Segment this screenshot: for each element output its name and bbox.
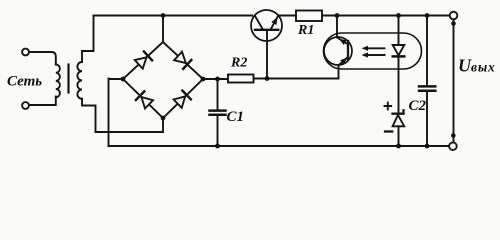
bridge rectifier diamond (123, 42, 203, 118)
wire mains bottom to primary (29, 97, 56, 106)
node C1 tap (215, 77, 220, 82)
svg-text:R2: R2 (230, 56, 247, 71)
capacitor C2 lead bottom (426, 92, 428, 146)
node output top stub (451, 21, 456, 26)
wire bridge top corner lead (162, 16, 164, 43)
wire zener anode to bottom rail (398, 126, 400, 146)
diode VD4 lower-right (174, 96, 186, 107)
transformer T1 primary winding (56, 65, 60, 98)
transistor VT1 emitter slant (271, 16, 279, 30)
terminal output bottom (449, 142, 457, 150)
node bridge right corner (201, 77, 206, 82)
transistor VT1 base bar (255, 29, 278, 31)
resistor R1 (296, 11, 322, 22)
transformer T1 secondary winding (77, 62, 82, 99)
capacitor C2 lead top (426, 16, 428, 86)
node zener bottom (396, 144, 401, 149)
node output bottom stub (451, 133, 456, 138)
diode VD2 upper-right (174, 52, 186, 63)
resistor R2 (228, 75, 254, 83)
label + (385, 103, 392, 110)
wire top rail (94, 15, 253, 17)
capacitor C1 lead top (217, 79, 219, 110)
capacitor C1 plates (210, 109, 226, 112)
wire VT1 base lead (266, 31, 268, 79)
svg-text:C2: C2 (409, 98, 427, 114)
wire bridge left corner to bottom rail (109, 79, 124, 147)
node C2 bottom (425, 144, 430, 149)
node bridge left corner (121, 77, 126, 82)
opto phototransistor emitter slant (340, 57, 349, 65)
opto phototransistor arrow lower (340, 58, 347, 65)
node C1 bottom (215, 144, 220, 149)
diode VD1 upper-left (135, 57, 147, 68)
capacitor C1 lead bottom (217, 116, 219, 146)
LED cathode bar (393, 55, 405, 58)
optocoupler U1 body (324, 33, 422, 69)
wire secondary bottom to bridge bottom corner (82, 99, 163, 132)
wire R2 to opto emitter node (254, 65, 339, 78)
terminal output top (450, 12, 458, 20)
capacitor C2 plates (419, 85, 435, 88)
transistor VT1 (251, 10, 282, 41)
zener VD5 cathode bar with hook (393, 110, 404, 113)
wire output vertical (453, 19, 455, 142)
transistor VT1 emitter arrow (271, 17, 277, 25)
node opto collector tap (335, 13, 340, 18)
wire LED cathode to zener (398, 56, 400, 113)
svg-text:Uвых: Uвых (458, 56, 496, 76)
LED anode lead (398, 16, 400, 46)
light arrow lower (367, 54, 385, 56)
transformer T1 core (67, 65, 69, 93)
opto phototransistor arrow top (339, 39, 346, 45)
svg-text:R1: R1 (297, 23, 314, 38)
svg-text:Сеть: Сеть (7, 74, 42, 90)
label - (385, 130, 392, 132)
opto phototransistor base bar (347, 41, 349, 59)
node top rail / bridge top (161, 13, 166, 18)
opto phototransistor collector slant (337, 38, 348, 45)
svg-text:C1: C1 (227, 109, 245, 125)
wire mains top to primary (29, 52, 56, 65)
node bridge bottom corner (161, 116, 166, 121)
light arrow upper (367, 47, 385, 49)
node LED tap (396, 13, 401, 18)
diode VD3 lower-left (142, 97, 154, 108)
LED triangle (393, 45, 405, 55)
zener VD5 triangle (393, 115, 405, 126)
optocoupler phototransistor circle (324, 37, 352, 65)
wire opto collector lead (336, 16, 338, 38)
transistor VT1 collector slant (255, 16, 263, 30)
node base junction (265, 76, 270, 81)
wire bridge right corner to R2 (203, 78, 228, 80)
terminal X1 mains top (22, 49, 29, 56)
wire secondary top to top rail (82, 16, 94, 63)
node C2 tap (425, 13, 430, 18)
terminal X2 mains bottom (22, 102, 29, 109)
wire bottom rail (109, 145, 449, 147)
